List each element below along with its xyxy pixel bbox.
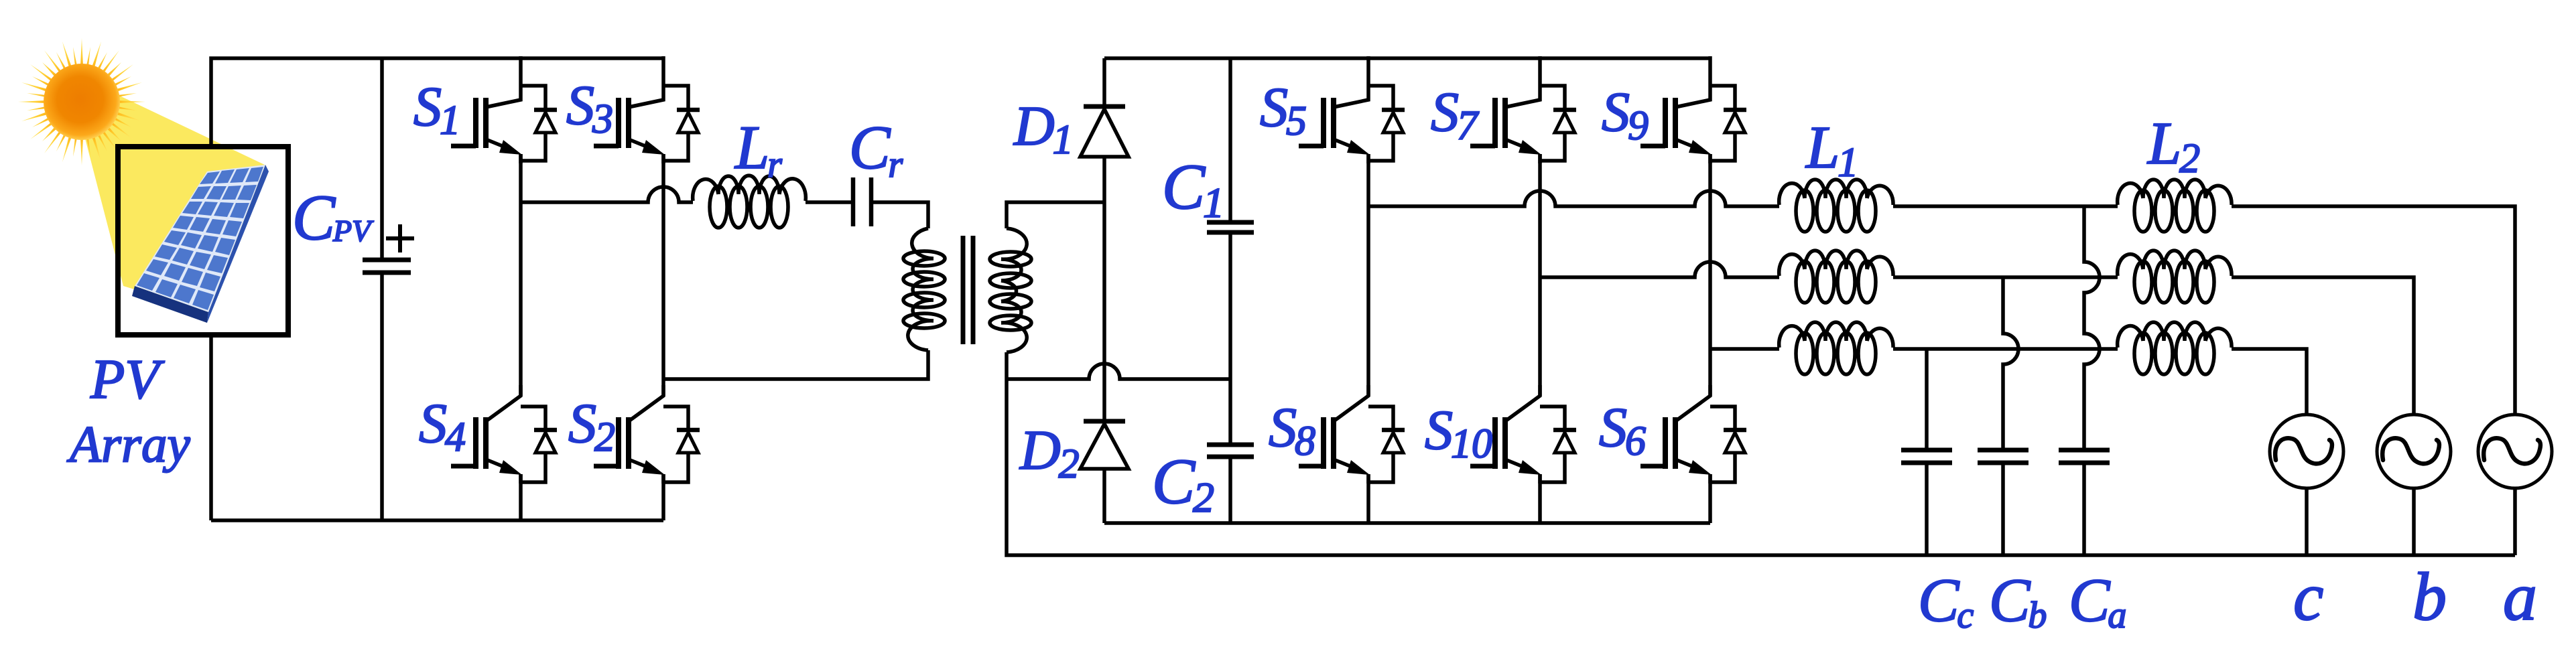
igbt S2 — [594, 385, 700, 484]
wire S1-S4 rail — [519, 154, 523, 396]
PV panel — [132, 286, 208, 323]
transformer primary — [908, 228, 933, 350]
wire S10 emitter to bus — [1538, 474, 1542, 523]
wire S6 emitter to bus — [1708, 474, 1712, 523]
wire S7-S10 rail — [1538, 154, 1542, 396]
svg-text:PV: PV — [90, 348, 165, 411]
wire S5-S8 rail — [1366, 154, 1370, 396]
igbt S5 — [1299, 56, 1405, 163]
diode D2 — [1084, 419, 1125, 424]
igbt S4 — [451, 385, 557, 484]
wire phase line 3 — [1710, 347, 1779, 351]
inductor Lr — [693, 175, 806, 201]
wire phase2 to source b — [2232, 277, 2414, 415]
svg-text:a: a — [2503, 559, 2537, 635]
capacitor C1 — [1228, 58, 1232, 379]
wire S4 emitter to bus — [519, 474, 523, 520]
igbt S6 — [1640, 385, 1746, 484]
diode D1 — [1084, 104, 1125, 109]
CPV plus sign — [386, 224, 414, 252]
source a — [2478, 415, 2552, 488]
capacitor CPV — [380, 58, 384, 520]
inductor L1 top — [1779, 179, 1893, 205]
wire bottom bus left — [211, 518, 663, 522]
wire phase2 L1 to L2 — [1893, 275, 2118, 279]
igbt S3 — [594, 56, 700, 163]
capacitor Cb — [2003, 277, 2018, 555]
label PV Array — [66, 348, 190, 473]
diode rail — [1102, 58, 1106, 523]
wire bottom bridge bus — [1104, 521, 1710, 525]
wire phase line 2 with hop — [1540, 262, 1779, 277]
wire secondary top to D rail — [1007, 202, 1104, 228]
capacitor Ca — [2084, 206, 2100, 555]
sun beam — [84, 92, 266, 312]
transformer core — [963, 236, 973, 344]
capacitor Cr — [853, 177, 871, 226]
igbt S8 — [1299, 385, 1405, 484]
wire phase1 to source a — [2232, 206, 2515, 415]
inductor L2 bottom — [2118, 322, 2232, 348]
inductor L2 top — [2118, 179, 2232, 205]
PV array box — [118, 147, 288, 335]
transformer secondary — [1001, 228, 1027, 352]
wire phase line 1 with hops — [1368, 191, 1779, 206]
sun — [18, 38, 145, 165]
capacitor C2 — [1228, 379, 1232, 523]
wire Lr to Cr — [806, 200, 853, 204]
wire secondary return to C-midpoint with hop — [1007, 364, 1230, 379]
inductor L1 middle — [1779, 250, 1893, 276]
wire top-left rail — [211, 58, 663, 149]
wire phase3 to source c — [2232, 349, 2307, 415]
wire Cr to primary — [871, 202, 928, 228]
inductor L2 middle — [2118, 250, 2232, 276]
wire bridge mid to Lr with hop — [521, 187, 693, 202]
wire secondary bottom and long bus — [1007, 352, 2515, 555]
igbt S7 — [1470, 56, 1576, 163]
wire S9-S6 rail — [1708, 154, 1712, 396]
svg-text:c: c — [2293, 559, 2323, 635]
svg-text:b: b — [2412, 559, 2447, 635]
wire S8 emitter to bus — [1366, 474, 1370, 523]
igbt S1 — [451, 56, 557, 163]
wire S3-S2 mid to primary bottom — [663, 350, 928, 379]
source b — [2377, 415, 2451, 488]
igbt S9 — [1640, 56, 1746, 163]
wire phase1 L1 to L2 — [1893, 204, 2118, 208]
wire S2 emitter to bus — [661, 474, 665, 520]
wire PV box bottom to bus — [209, 334, 213, 520]
capacitor Cc — [1925, 349, 1929, 555]
inductor L1 bottom — [1779, 322, 1893, 348]
wire phase3 L1 to L2 — [1893, 347, 2118, 351]
igbt S10 — [1470, 385, 1576, 484]
svg-text:Array: Array — [66, 415, 190, 473]
wire S3-S2 rail — [661, 154, 665, 396]
source c — [2270, 415, 2343, 488]
wire top bus right — [1104, 56, 1710, 60]
